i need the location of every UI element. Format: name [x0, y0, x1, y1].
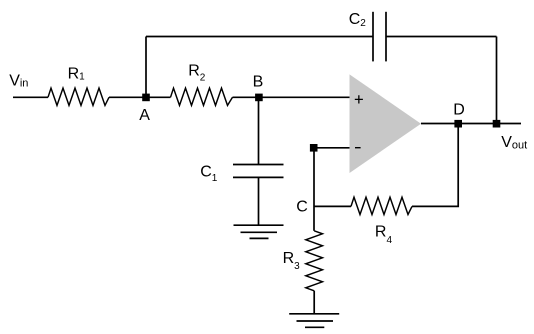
wire riser node A to top — [145, 37, 147, 98]
svg-text:R4: R4 — [375, 224, 393, 247]
capacitor C2 right plate — [385, 12, 387, 62]
op-amp minus pin mark — [355, 147, 361, 149]
svg-text:R1: R1 — [68, 66, 86, 83]
resistor R1 — [48, 88, 109, 105]
capacitor C1 top plate — [233, 164, 284, 166]
capacitor C1 bottom plate — [233, 176, 284, 178]
wire top from A to C2 — [146, 36, 373, 38]
wire node D down to R4 corner — [412, 124, 458, 207]
node A — [142, 94, 150, 102]
svg-text:C2: C2 — [349, 11, 367, 29]
wire minus junction to op-amp minus input — [314, 147, 350, 149]
resistor R3 — [306, 231, 323, 291]
node B — [255, 94, 263, 102]
svg-text:R2: R2 — [188, 63, 206, 84]
svg-text:C1: C1 — [200, 164, 218, 184]
wire minus junction down through node C to R3 — [313, 148, 315, 231]
svg-text:C: C — [296, 199, 308, 216]
wire node B to op-amp plus input — [233, 96, 350, 98]
capacitor C2 left plate — [372, 12, 374, 62]
wire C2 to right drop — [386, 36, 497, 38]
junction minus input — [310, 144, 318, 152]
resistor R4 — [351, 197, 412, 214]
svg-text:B: B — [253, 74, 264, 91]
resistor R2 — [171, 88, 233, 105]
ground below C1 — [234, 225, 284, 238]
ground below R3 — [289, 314, 339, 328]
svg-text:D: D — [453, 102, 465, 119]
svg-text:A: A — [139, 107, 150, 124]
wire R3 to ground — [313, 291, 315, 314]
wire node B down to C1 — [258, 97, 260, 164]
wire node C to R4 — [314, 205, 351, 207]
svg-text:R3: R3 — [283, 250, 301, 272]
wire R1 to R2 through node A — [109, 96, 171, 98]
wire C1 to ground — [258, 177, 260, 225]
wire Vin lead — [13, 96, 48, 98]
svg-text:Vin: Vin — [9, 72, 28, 89]
junction C2 branch and output — [493, 120, 501, 128]
wire drop C2 branch to output — [496, 37, 498, 124]
op-amp plus pin mark — [355, 95, 363, 103]
node D — [454, 120, 462, 128]
svg-text:Vout: Vout — [501, 134, 527, 151]
op-amp U1 — [350, 74, 422, 173]
wire output line — [421, 123, 521, 125]
